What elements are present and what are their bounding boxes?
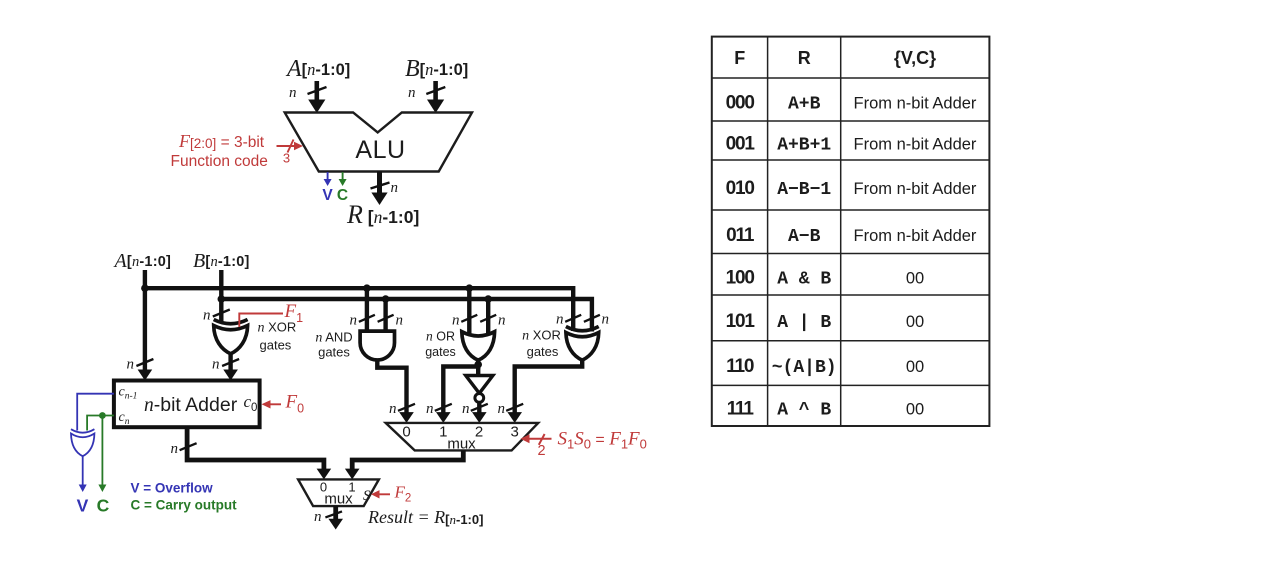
wire V output (blue) (79, 456, 87, 492)
svg-text:mux: mux (324, 491, 353, 508)
svg-text:B[n-1:0]: B[n-1:0] (193, 250, 250, 272)
label F0 (285, 392, 305, 416)
wire result output of mux2 (328, 506, 343, 529)
bus-width tick n on XOR B input (203, 308, 230, 324)
svg-text:n XOR: n XOR (522, 328, 561, 344)
svg-text:A & B: A & B (777, 269, 831, 289)
wire OR gate right input (484, 295, 492, 334)
wire B vertical (219, 270, 223, 322)
bus-width tick n on mux input 0 (389, 401, 415, 417)
svg-text:C = Carry output: C = Carry output (131, 498, 238, 513)
svg-text:A[n-1:0]: A[n-1:0] (113, 250, 172, 272)
label B[n-1:0] (lower) (193, 250, 250, 272)
ALU block (285, 113, 472, 172)
node V (77, 496, 89, 516)
svg-text:{V,C}: {V,C} (894, 48, 936, 68)
svg-text:A+B: A+B (788, 95, 821, 115)
svg-text:110: 110 (726, 356, 754, 377)
svg-text:n-bit Adder: n-bit Adder (144, 394, 238, 416)
svg-text:n: n (498, 313, 506, 329)
label F1 (284, 301, 304, 325)
svg-text:R: R (798, 48, 811, 68)
junction B bus (218, 295, 226, 303)
svg-text:n: n (602, 312, 610, 328)
svg-text:011: 011 (726, 225, 755, 246)
table header row F R {V,C} (734, 48, 936, 68)
bus-width tick n on mux input 3 (498, 401, 524, 417)
label S1S0 = F1F0 (558, 429, 647, 452)
label F[2:0] = 3-bit Function code (171, 131, 268, 170)
svg-text:n: n (350, 313, 358, 329)
svg-text:n OR: n OR (426, 329, 455, 344)
svg-text:n: n (212, 357, 220, 373)
wire mux4 output to mux2 input 1 (345, 450, 463, 479)
svg-text:00: 00 (906, 401, 924, 419)
table column R values (772, 95, 837, 421)
wire B bus horizontal (221, 299, 592, 332)
wire A vertical to adder (138, 270, 153, 381)
bus-width tick n on adder B input (212, 357, 239, 373)
label A[n-1:0] (lower) (113, 250, 172, 272)
wire input A to ALU (308, 81, 325, 113)
svg-text:1: 1 (439, 424, 447, 441)
wire AND output to mux input 0 (377, 360, 414, 423)
legend V = Overflow (131, 481, 214, 496)
svg-text:V = Overflow: V = Overflow (131, 481, 214, 496)
svg-text:gates: gates (318, 345, 350, 360)
mux 4:1 (386, 423, 539, 453)
svg-text:n: n (289, 85, 297, 101)
wire A bus horizontal (145, 288, 573, 331)
svg-text:From n-bit Adder: From n-bit Adder (854, 95, 977, 113)
junction A bus (141, 284, 149, 292)
svg-text:C: C (97, 496, 110, 516)
svg-text:2: 2 (537, 443, 545, 459)
svg-text:n: n (556, 312, 564, 328)
bus-width ticks n on AND inputs (350, 313, 404, 329)
wire F1 into xor gate (239, 314, 283, 328)
bus-width tick n on R output (371, 180, 399, 196)
svg-text:A−B−1: A−B−1 (777, 180, 831, 200)
bus-width tick n on B input (408, 85, 445, 101)
svg-text:00: 00 (906, 313, 924, 331)
bus-width ticks n on OR inputs (452, 313, 506, 329)
function table grid (712, 37, 990, 426)
label n XOR gates (left) (258, 320, 297, 353)
and gate (n AND gates) (360, 331, 394, 360)
svg-text:F: F (734, 48, 745, 68)
bus-width tick n on mux input 1 (426, 401, 452, 417)
svg-text:n: n (462, 401, 470, 417)
svg-text:00: 00 (906, 358, 924, 376)
svg-text:gates: gates (527, 344, 559, 359)
svg-text:0: 0 (402, 424, 410, 441)
svg-text:n: n (389, 401, 397, 417)
svg-text:n: n (452, 313, 460, 329)
wire C output (green) (98, 416, 106, 493)
bus-width tick 3 on F input (283, 140, 294, 166)
label A[n-1:0] (top) (285, 56, 350, 82)
svg-text:n: n (127, 357, 135, 373)
svg-text:A | B: A | B (777, 313, 831, 333)
svg-text:3: 3 (283, 151, 290, 166)
svg-text:n: n (426, 401, 434, 417)
label F2 (394, 483, 412, 505)
svg-text:n: n (408, 85, 416, 101)
svg-text:111: 111 (727, 399, 755, 420)
legend C = Carry output (131, 498, 238, 513)
wire F0 into adder c0 (262, 400, 282, 408)
label B[n-1:0] (top) (405, 56, 468, 82)
svg-text:n AND: n AND (315, 330, 352, 346)
svg-text:mux: mux (447, 436, 476, 453)
n-bit Adder block (114, 381, 260, 428)
svg-text:n: n (391, 180, 399, 196)
wire XOR output to mux input 3 (507, 360, 582, 423)
bus-width tick n on adder output (171, 441, 197, 457)
wire OR gate left input (466, 284, 474, 334)
bus-width tick 2 on select (537, 434, 545, 459)
svg-text:V: V (322, 187, 333, 204)
svg-text:A ^ B: A ^ B (777, 401, 831, 421)
svg-text:n: n (203, 308, 211, 324)
label Result = R[n-1:0] (367, 507, 483, 527)
svg-text:From n-bit Adder: From n-bit Adder (854, 180, 977, 198)
wire F2 select into mux2 (red) (371, 490, 390, 498)
bus-width tick n on result (314, 509, 342, 525)
bus-width ticks n on right XOR inputs (556, 312, 609, 328)
junction OR output (474, 361, 482, 369)
label R [n-1:0] (346, 200, 419, 229)
svg-text:V: V (77, 496, 89, 516)
table column V,C values (854, 95, 977, 419)
svg-text:2: 2 (475, 424, 483, 441)
inverter (NOR path) (466, 367, 493, 403)
wire OR output to mux input 1 (436, 360, 478, 423)
svg-text:Function code: Function code (171, 153, 268, 170)
svg-text:ALU: ALU (355, 136, 405, 164)
wire AND gate left input (363, 284, 371, 332)
output R of ALU (371, 172, 387, 206)
svg-text:n: n (498, 401, 506, 417)
svg-text:gates: gates (425, 345, 456, 359)
wire F function-code into ALU (277, 142, 304, 150)
svg-text:000: 000 (726, 93, 755, 114)
svg-text:001: 001 (726, 134, 756, 155)
svg-text:n: n (314, 509, 322, 525)
wire adder output to mux2 input 0 (187, 427, 331, 479)
xor gate (n XOR gates right) (566, 327, 599, 361)
svg-text:~(A|B): ~(A|B) (772, 358, 837, 378)
or gate (n OR gates) (462, 332, 495, 361)
bus-width tick n on mux input 2 (462, 401, 488, 417)
label n AND gates (315, 330, 352, 360)
wire c_n to overflow xor and C out (green) (87, 416, 114, 431)
svg-text:A−B: A−B (788, 227, 821, 247)
wire AND gate right input (382, 295, 390, 332)
svg-text:n: n (396, 313, 404, 329)
bus-width tick n on A input (289, 85, 327, 101)
svg-text:gates: gates (260, 338, 292, 353)
svg-text:101: 101 (726, 311, 756, 332)
junction on c_n wire (99, 412, 106, 419)
svg-text:n: n (171, 441, 179, 457)
svg-text:3: 3 (511, 424, 519, 441)
wire xor output to adder (223, 354, 238, 381)
output V of ALU (322, 172, 333, 204)
xor gate (B xor F1) (214, 320, 248, 354)
mux 2:1 (298, 479, 379, 507)
bus-width tick n on adder A input (127, 357, 154, 373)
wire input B to ALU (427, 81, 444, 113)
wire mux select S1S0 (red) (521, 434, 552, 443)
svg-text:From n-bit Adder: From n-bit Adder (854, 227, 977, 245)
xor gate overflow (blue) (71, 429, 94, 456)
label n XOR gates (right) (522, 328, 561, 360)
output C of ALU (337, 172, 348, 204)
svg-text:00: 00 (906, 269, 924, 287)
svg-text:n XOR: n XOR (258, 320, 297, 336)
svg-text:100: 100 (726, 267, 755, 288)
svg-text:S: S (363, 488, 371, 504)
label n OR gates (425, 329, 456, 360)
node C (97, 496, 110, 516)
svg-text:A+B+1: A+B+1 (777, 136, 831, 156)
table column F values (726, 93, 756, 420)
wire c_n-1 to overflow xor (blue) (77, 394, 114, 431)
svg-text:From n-bit Adder: From n-bit Adder (854, 136, 977, 154)
wire inverter output to mux input 2 (472, 402, 487, 423)
svg-text:010: 010 (726, 178, 755, 199)
